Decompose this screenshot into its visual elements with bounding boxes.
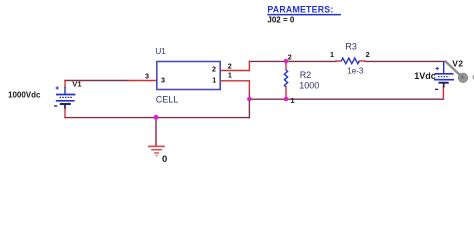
svg-text:R3: R3 <box>345 42 357 52</box>
svg-text:2: 2 <box>228 61 232 70</box>
svg-text:3: 3 <box>161 76 165 85</box>
svg-text:1: 1 <box>212 76 216 85</box>
svg-text:V1: V1 <box>72 79 82 88</box>
svg-text:2: 2 <box>212 64 216 73</box>
svg-text:1: 1 <box>228 70 232 79</box>
svg-text:0: 0 <box>162 154 167 164</box>
svg-text:2: 2 <box>288 53 292 62</box>
svg-text:1000Vdc: 1000Vdc <box>8 90 41 99</box>
svg-text:1: 1 <box>291 96 295 105</box>
svg-text:2: 2 <box>366 50 370 59</box>
svg-text:CELL: CELL <box>156 95 179 105</box>
svg-text:3: 3 <box>145 71 149 80</box>
svg-text:1Vdc: 1Vdc <box>414 71 436 81</box>
svg-text:U1: U1 <box>156 47 167 56</box>
svg-text:J02 = 0: J02 = 0 <box>267 15 294 24</box>
svg-text:1: 1 <box>330 50 334 59</box>
svg-text:PARAMETERS:: PARAMETERS: <box>267 4 333 14</box>
svg-text:1000: 1000 <box>299 81 319 91</box>
svg-text:R2: R2 <box>300 70 312 80</box>
svg-text:V2: V2 <box>452 58 463 68</box>
svg-text:1e-3: 1e-3 <box>347 66 364 75</box>
